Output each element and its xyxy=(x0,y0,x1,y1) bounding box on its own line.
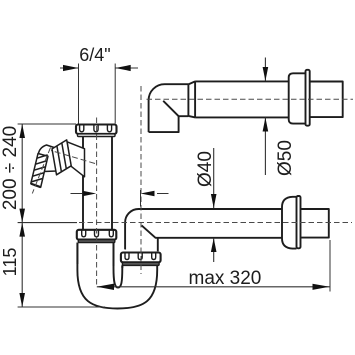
nut N3 (right, on U-bend outlet) xyxy=(121,253,161,263)
pipe P2 walls xyxy=(195,81,289,117)
connector socket xyxy=(67,142,85,177)
svg-text:115: 115 xyxy=(0,248,20,277)
arrow Ø50 up xyxy=(263,118,269,132)
centerline connector barb axis xyxy=(32,148,50,194)
connector nut xyxy=(52,140,71,175)
centerline vertical outlet arm xyxy=(140,86,142,274)
nut N2 (left, on U-bend inlet) xyxy=(77,230,117,240)
U-bend body xyxy=(77,243,157,309)
elbow E2 diagonal xyxy=(163,101,188,116)
arrow 115 bottom xyxy=(19,293,25,307)
U-bend inner notch xyxy=(114,243,123,288)
dim left extension lines xyxy=(18,124,105,307)
arrow Ø40 down xyxy=(211,194,217,208)
pipe P2 stub xyxy=(310,82,343,118)
dim unnamed offset line xyxy=(71,193,169,195)
arrow 6/4 right xyxy=(115,65,131,71)
flange F2 plate xyxy=(306,70,310,126)
centerline upper pipe xyxy=(147,98,354,100)
centerline vertical pipe xyxy=(96,118,98,288)
cup below N2 xyxy=(77,243,113,266)
pipe P2 taper+shoulder xyxy=(188,81,195,117)
dim left vertical line xyxy=(21,124,23,307)
flange F1 bell xyxy=(282,197,297,249)
svg-text:Ø40: Ø40 xyxy=(195,151,216,187)
connector elbow xyxy=(38,145,56,172)
flange F2 bell xyxy=(289,73,306,123)
arrow max320 left xyxy=(97,284,114,290)
dim Ø40 lines xyxy=(213,148,215,262)
vertical pipe walls xyxy=(83,136,112,230)
arrow 6/4 left xyxy=(63,65,79,71)
nut N1 (top) xyxy=(76,125,117,134)
arrow max320 right xyxy=(313,284,330,290)
dim 6/4" lines xyxy=(60,67,138,69)
dim max320 line xyxy=(97,286,330,288)
trap outlet elbow E1 xyxy=(125,209,282,251)
svg-text:Ø50: Ø50 xyxy=(275,140,296,176)
svg-text:6/4": 6/4" xyxy=(79,45,110,65)
arrow Ø50 down xyxy=(263,67,269,81)
flange F1 plate xyxy=(297,196,301,248)
connector barb xyxy=(31,154,48,188)
pipe P1 stub xyxy=(301,209,329,238)
centerline lower pipe xyxy=(79,222,352,224)
elbow E2 body xyxy=(149,84,189,132)
centerline connector socket axis xyxy=(51,151,95,164)
dim Ø50 lines xyxy=(264,58,266,176)
arrow 200-240 top xyxy=(19,124,25,138)
svg-text:200 ÷ 240: 200 ÷ 240 xyxy=(0,126,21,210)
cup below N3 xyxy=(122,265,157,268)
elbow E2 socket mouth xyxy=(187,84,189,116)
arrow offset right (points left at arm axis) xyxy=(141,191,155,197)
arrow bowtie middle xyxy=(19,209,25,237)
arrow offset left (points right at pipe axis) xyxy=(83,191,97,197)
arrow Ø40 up xyxy=(211,238,217,252)
svg-text:max 320: max 320 xyxy=(189,268,262,289)
